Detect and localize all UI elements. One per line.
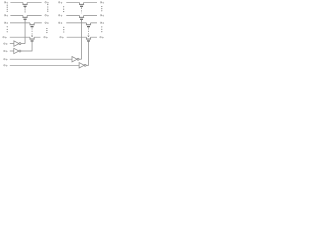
- node a0 label: [4, 2, 8, 4]
- transistor Q4 gate bar: [31, 40, 34, 42]
- transistor Q6 gate stub: [81, 19, 83, 22]
- transistor Q7 channel walls: [86, 23, 90, 25]
- inverter U1: [14, 41, 19, 46]
- transistor Q5 channel walls: [80, 3, 84, 5]
- transistor Q2 gate stub: [24, 19, 26, 22]
- transistor Q3 gate bar: [31, 26, 34, 28]
- node d2 label: [100, 22, 104, 24]
- transistor Q5 gate bar: [80, 5, 83, 7]
- ellipsis right labels right-group lower: [101, 26, 102, 32]
- transistor Q8 channel bar: [86, 38, 91, 40]
- ellipsis left labels right-group upper: [63, 6, 64, 12]
- wire gate bus V2 left lower: [21, 42, 32, 51]
- transistor Q1 gate stub: [24, 6, 26, 9]
- node rowA right label: [44, 36, 48, 38]
- wire row E: [10, 64, 79, 66]
- transistor Q2 channel walls: [23, 16, 27, 18]
- transistor Q6 gate bar: [80, 18, 83, 20]
- node b0 label: [45, 2, 49, 4]
- transistor Q8 gate stub: [88, 41, 90, 44]
- wire dashed gate bus right top: [81, 8, 83, 14]
- transistor Q2 channel bar: [23, 16, 28, 18]
- ellipsis left labels right-group lower: [63, 27, 64, 33]
- transistor Q3 gate stub: [31, 26, 33, 29]
- ellipsis left labels upper: [7, 5, 8, 12]
- transistor Q3 channel walls: [30, 23, 34, 25]
- node rowD label: [4, 58, 8, 60]
- inverter U1 bubble: [19, 43, 21, 45]
- wire inverter U4 output: [86, 64, 88, 66]
- node midrow label: [60, 36, 64, 38]
- node b2 label: [45, 22, 49, 24]
- transistor Q7 gate bar: [87, 26, 90, 28]
- wire mid row right: [67, 36, 97, 38]
- wire row D: [10, 58, 72, 60]
- node rowA label: [3, 36, 7, 38]
- wire rail1 left: [10, 2, 41, 4]
- node a2 label: [4, 22, 8, 24]
- transistor Q8 channel walls: [86, 37, 90, 39]
- transistor Q1 gate bar: [24, 5, 27, 7]
- wire rail2 right: [66, 15, 97, 17]
- inverter U3 bubble: [77, 58, 79, 60]
- transistor Q3 channel bar: [30, 24, 35, 26]
- wire row A: [10, 36, 41, 38]
- wire dashed gate link right: [88, 28, 90, 35]
- node b1 label: [45, 15, 49, 17]
- wire inverter U1 output: [21, 43, 25, 45]
- wire rail2 left: [10, 15, 41, 17]
- node rowC label: [4, 50, 8, 52]
- ellipsis right labels left-group upper: [47, 4, 48, 12]
- ellipsis right labels right-group upper: [101, 6, 102, 11]
- transistor Q2 gate bar: [24, 18, 27, 20]
- inverter U4 bubble: [84, 64, 86, 66]
- transistor Q8 gate bar: [87, 40, 90, 42]
- node c1 label: [58, 15, 62, 17]
- wire gate bus V1 right: [81, 20, 83, 59]
- transistor Q5 gate stub: [81, 6, 83, 9]
- ellipsis left labels lower: [7, 26, 8, 32]
- arrowhead gate link left onto row A: [31, 36, 33, 37]
- ellipsis gate bus left: [25, 7, 26, 12]
- transistor Q4 channel walls: [30, 37, 34, 39]
- transistor Q6 channel bar: [79, 16, 84, 18]
- wire row C input: [10, 50, 14, 52]
- transistor Q1 channel walls: [23, 3, 27, 5]
- wire rail3 right: [66, 22, 97, 24]
- transistor Q6 channel walls: [80, 16, 84, 18]
- node c0 label: [58, 2, 62, 4]
- wire rail3 left: [10, 22, 42, 24]
- node rowB label: [4, 43, 8, 45]
- inverter U2: [14, 48, 19, 53]
- wire dashed gate link left: [31, 28, 33, 35]
- node d1 label: [100, 15, 104, 17]
- arrowhead gate link right onto mid row: [87, 36, 89, 37]
- wire inverter U3 output: [79, 58, 82, 60]
- inverter U4: [79, 63, 84, 68]
- ellipsis right labels left-group lower: [46, 28, 47, 33]
- inverter U2 bubble: [19, 50, 21, 52]
- transistor Q7 gate stub: [88, 26, 90, 29]
- wire rail1 right: [66, 2, 97, 4]
- node rowE label: [4, 65, 8, 67]
- wire gate bus V1 left: [24, 20, 26, 44]
- wire row B input: [10, 43, 14, 45]
- transistor Q5 channel bar: [79, 3, 84, 5]
- node d0 label: [100, 2, 104, 4]
- wire gate bus V2 right lower: [86, 42, 88, 66]
- transistor Q4 channel bar: [30, 38, 35, 40]
- transistor Q7 channel bar: [86, 24, 91, 26]
- node midrow right label: [100, 36, 104, 38]
- inverter U3: [72, 57, 77, 62]
- transistor Q1 channel bar: [23, 3, 28, 5]
- node c2 label: [58, 22, 62, 24]
- node a1 label: [4, 15, 8, 17]
- transistor Q4 gate stub: [31, 41, 33, 44]
